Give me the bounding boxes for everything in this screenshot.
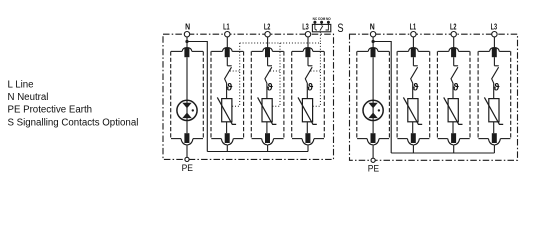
thermal disconnector switch (L1 left) — [225, 57, 232, 98]
clamp terminal top L2 right — [438, 47, 470, 57]
wire N terminal down (right) — [372, 37, 374, 48]
wire N terminal down (left) — [186, 37, 188, 48]
protection-path box L3 (left) (dashed) — [292, 51, 325, 138]
clamp terminal bottom L2 right — [438, 133, 470, 145]
signalling contacts block S: terminal dots — [313, 21, 330, 24]
wire varistor to bottom clamp (L2 right) — [452, 122, 454, 133]
clamp terminal bottom L1 left — [211, 133, 243, 145]
spark gap N-PE (right) — [363, 100, 383, 120]
wire L1 left terminal down — [226, 37, 228, 48]
wire L2 left bottom clamp to bus — [267, 145, 269, 152]
svg-text:PE: PE — [368, 164, 379, 175]
clamp terminal bottom L3 left — [292, 133, 324, 145]
svg-text:L1: L1 — [223, 22, 230, 32]
wire varistor to bottom clamp (L3 right) — [493, 122, 495, 133]
thermal disconnector switch (L1 right) — [411, 57, 418, 98]
svg-text:PE Protective Earth: PE Protective Earth — [8, 105, 93, 116]
svg-text:COM: COM — [318, 17, 326, 21]
right SPD enclosure (dash-dot) — [350, 34, 518, 160]
svg-text:NO: NO — [326, 17, 331, 21]
protection-path box N (left) (dashed) — [171, 51, 204, 138]
protection-path box L1 (right) (dashed) — [397, 51, 430, 138]
clamp terminal bottom L2 left — [252, 133, 284, 145]
wire L3 left bottom clamp to bus — [307, 145, 309, 152]
svg-text:ϑ: ϑ — [267, 83, 273, 94]
N-PE bus (left) — [207, 151, 308, 153]
terminal L2 (left) — [265, 32, 270, 37]
thermal disconnector switch (L2 right) — [451, 57, 458, 98]
signalling linkage drop L1 (dotted) — [230, 43, 240, 106]
signalling linkage stem from S block (dotted) — [319, 32, 321, 43]
clamp terminal bottom N (left) — [171, 133, 203, 145]
spark gap N-PE (left) — [177, 100, 197, 120]
clamp terminal top L2 left — [252, 47, 284, 57]
clamp terminal bottom L1 right — [397, 133, 429, 145]
protection-path box L2 (left) (dashed) — [251, 51, 284, 138]
terminal L2 (right) — [451, 32, 456, 37]
svg-text:S: S — [337, 21, 343, 35]
wire L2 right bottom clamp to bus — [453, 145, 455, 153]
svg-text:N: N — [185, 22, 190, 32]
thermal disconnector switch (L2 left) — [265, 57, 272, 98]
wire L1 left bottom clamp to bus — [226, 145, 228, 152]
wire N junction to internal bus (left) — [187, 42, 207, 152]
svg-text:L3: L3 — [302, 22, 309, 32]
clamp terminal top L3 right — [478, 47, 510, 57]
clamp terminal bottom N (right) — [357, 133, 389, 145]
N-PE bus (right) — [391, 152, 494, 154]
wire through spark gap (left) — [186, 57, 188, 133]
signalling contacts block S: changeover contacts — [315, 24, 329, 31]
clamp terminal bottom L3 right — [478, 133, 510, 145]
signalling contacts block S: labels NC COM NO — [313, 17, 332, 21]
varistor (L2 left) — [258, 97, 277, 124]
thermal disconnector switch (L3 right) — [492, 57, 499, 98]
svg-text:N: N — [370, 22, 375, 32]
clamp terminal top N (right) — [357, 47, 389, 57]
junction dot on N conductor (right) — [372, 40, 375, 43]
svg-text:L3: L3 — [491, 22, 498, 32]
clamp terminal top L3 left — [292, 47, 324, 57]
svg-text:L Line: L Line — [8, 80, 34, 91]
wire L2 left terminal down — [267, 37, 269, 48]
svg-text:ϑ: ϑ — [226, 83, 232, 94]
wire varistor to bottom clamp (L1 right) — [412, 122, 414, 133]
terminal N (right) — [370, 32, 375, 37]
PE terminal circle (right) — [371, 158, 375, 162]
terminal L3 (right) — [492, 32, 497, 37]
protection-path box N (right) (dashed) — [357, 51, 390, 138]
varistor (L1 left) — [217, 97, 236, 124]
signalling contacts block S: body — [312, 24, 330, 31]
protection-path box L2 (right) (dashed) — [437, 51, 470, 138]
clamp terminal top L1 right — [397, 47, 429, 57]
wire N to PE terminal (right) — [372, 145, 374, 158]
wire L1 right bottom clamp to bus — [412, 145, 414, 153]
wire varistor to bottom clamp (L3 left) — [306, 122, 308, 133]
varistor (L3 left) — [298, 97, 317, 124]
varistor (L1 right) — [403, 97, 422, 124]
wire L3 left terminal down — [307, 37, 309, 48]
wire N to PE terminal (left) — [186, 145, 188, 157]
svg-text:L1: L1 — [410, 22, 417, 32]
svg-text:L2: L2 — [450, 22, 457, 32]
wire L2 right terminal down — [453, 37, 455, 48]
wire varistor to bottom clamp (L1 left) — [226, 122, 228, 133]
thermal disconnector switch (L3 left) — [305, 57, 312, 98]
terminal N (left) — [184, 32, 189, 37]
svg-text:ϑ: ϑ — [307, 83, 313, 94]
terminal L3 (left) — [305, 32, 310, 37]
svg-text:ϑ: ϑ — [453, 83, 459, 94]
protection-path box L1 (left) (dashed) — [211, 51, 244, 138]
terminal L1 (right) — [411, 32, 416, 37]
junction dot on N conductor (left) — [185, 40, 188, 43]
wire through spark gap (right) — [372, 57, 374, 133]
varistor (L2 right) — [444, 97, 463, 124]
svg-text:PE: PE — [182, 163, 193, 174]
wire L3 right terminal down — [493, 37, 495, 48]
signalling linkage drop L2 (dotted) — [270, 43, 280, 106]
signalling linkage drop L3 (dotted) — [311, 43, 321, 106]
clamp terminal top L1 left — [211, 47, 243, 57]
svg-text:ϑ: ϑ — [494, 83, 500, 94]
protection-path box L3 (right) (dashed) — [478, 51, 511, 138]
varistor (L3 right) — [484, 97, 503, 124]
svg-text:N Neutral: N Neutral — [8, 92, 49, 103]
PE terminal circle (left) — [185, 157, 189, 161]
clamp terminal top N (left) — [171, 47, 203, 57]
signalling linkage main run (dotted) — [240, 42, 321, 44]
wire N junction to internal bus (right) — [373, 42, 391, 154]
terminal L1 (left) — [225, 32, 230, 37]
svg-text:ϑ: ϑ — [413, 83, 419, 94]
svg-text:S Signalling Contacts Optional: S Signalling Contacts Optional — [8, 117, 139, 128]
left SPD enclosure (dash-dot) — [163, 34, 334, 159]
wire L3 right bottom clamp to bus — [493, 145, 495, 153]
svg-text:L2: L2 — [264, 22, 271, 32]
wire L1 right terminal down — [412, 37, 414, 48]
wire varistor to bottom clamp (L2 left) — [266, 122, 268, 133]
